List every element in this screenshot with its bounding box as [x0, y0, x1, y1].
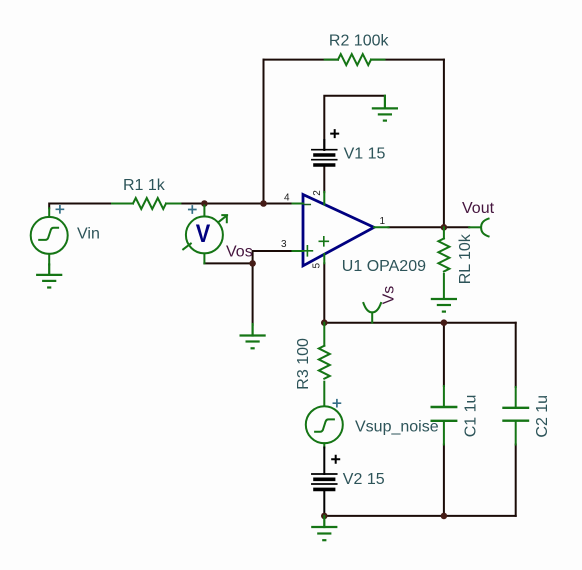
- op-amp pin 4 stub: [293, 203, 304, 205]
- ground below V2: [312, 516, 336, 540]
- junction node voltmeter / pin3 / ground: [249, 260, 256, 267]
- svg-text:3: 3: [281, 239, 287, 250]
- op-amp pin 2 stub: [323, 192, 325, 205]
- resistor RL: [438, 227, 449, 299]
- svg-text:R3 100: R3 100: [295, 338, 312, 390]
- wire feedback left vertical: [263, 60, 265, 204]
- probe Vs: [363, 303, 381, 323]
- resistor R2: [325, 54, 385, 65]
- svg-text:2: 2: [312, 190, 323, 196]
- op-amp pin 5 stub: [323, 254, 325, 263]
- junction node bottom bus left: [321, 513, 328, 520]
- svg-text:R2 100k: R2 100k: [329, 33, 390, 50]
- wire V1 top to ground corner: [324, 96, 385, 150]
- battery V2: [312, 448, 337, 490]
- svg-text:5: 5: [312, 263, 323, 269]
- junction node supply bus left: [321, 319, 328, 326]
- wire feedback right vertical to output node: [443, 60, 445, 228]
- plus sign of Vin: [56, 206, 63, 213]
- voltmeter Vos meter: [183, 206, 227, 264]
- svg-text:C1 1u: C1 1u: [462, 395, 479, 438]
- battery V1: [312, 140, 337, 165]
- wire node to ground: [252, 263, 254, 325]
- wire C1 branch bottom: [443, 445, 445, 516]
- wire V1 bottom to op-amp pin 2: [323, 165, 325, 192]
- wire node to pin 3: [253, 251, 293, 263]
- svg-text:1: 1: [380, 216, 386, 227]
- wire op-amp pin 5 down to supply bus: [323, 263, 325, 322]
- junction node feedback / input: [260, 200, 267, 207]
- op-amp plus mark at pin 3: [302, 246, 312, 256]
- resistor R3: [319, 323, 330, 406]
- svg-text:RL 10k: RL 10k: [457, 233, 474, 284]
- wire C2 branch top: [515, 323, 517, 387]
- op-amp inner plus mark: [319, 237, 328, 246]
- wire V2 bottom to bottom bus node: [323, 490, 325, 516]
- svg-text:Vos: Vos: [226, 243, 253, 260]
- resistor R1: [112, 198, 180, 209]
- wire output row: [389, 226, 470, 228]
- wire input row from Vin to R1: [49, 204, 112, 209]
- plus sign of Vsup_noise: [333, 400, 340, 407]
- op-amp pin 3 stub: [293, 250, 304, 252]
- svg-text:V: V: [196, 220, 211, 248]
- voltage source Vsup_noise: [306, 406, 343, 447]
- wire bottom bus: [324, 515, 515, 517]
- wire input row from R1 to op-amp pin 4: [180, 203, 292, 205]
- ground below Vin: [37, 265, 61, 288]
- ground at V1: [373, 96, 397, 121]
- junction node output: [441, 224, 448, 231]
- wire feedback top right segment: [371, 59, 444, 61]
- svg-text:Vin: Vin: [77, 225, 100, 242]
- svg-text:V1 15: V1 15: [344, 146, 386, 163]
- capacitor C2: [504, 387, 529, 445]
- junction node R1 / voltmeter: [201, 200, 208, 207]
- voltage source Vin: [31, 208, 68, 264]
- probe Vout: [469, 219, 488, 237]
- plus sign of V2: [332, 456, 339, 463]
- wire voltmeter bottom to node: [204, 262, 252, 264]
- op-amp pin 1 stub: [374, 226, 389, 228]
- plus sign of voltmeter: [189, 206, 196, 213]
- svg-text:V2 15: V2 15: [343, 471, 385, 488]
- ground below Vos node: [241, 324, 265, 348]
- svg-text:R1 1k: R1 1k: [123, 177, 166, 194]
- junction node bottom bus C1: [441, 513, 448, 520]
- wire feedback top left segment: [264, 59, 339, 61]
- op-amp U1 triangle: [303, 195, 374, 266]
- svg-text:C2 1u: C2 1u: [534, 395, 551, 438]
- plus sign of V1: [331, 130, 338, 137]
- svg-text:Vs: Vs: [380, 286, 397, 305]
- capacitor C1: [432, 386, 457, 445]
- wire mid supply bus: [324, 322, 515, 324]
- svg-text:Vout: Vout: [462, 200, 495, 217]
- wire C1 branch top: [443, 323, 445, 386]
- svg-text:U1 OPA209: U1 OPA209: [342, 258, 426, 275]
- svg-text:4: 4: [284, 193, 290, 204]
- wire C2 branch bottom: [515, 445, 517, 516]
- svg-text:Vsup_noise: Vsup_noise: [355, 419, 439, 436]
- junction node supply bus C1: [441, 319, 448, 326]
- ground below RL: [432, 299, 456, 312]
- op-amp minus mark: [305, 204, 311, 206]
